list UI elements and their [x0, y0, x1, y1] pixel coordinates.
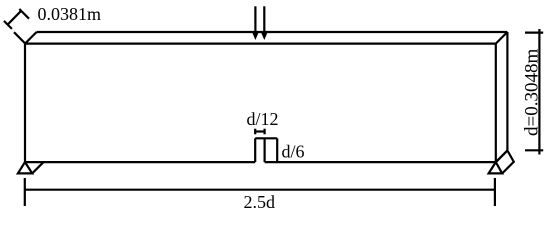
- height dimension bottom tick: [525, 149, 543, 151]
- svg-text:d=0.3048m: d=0.3048m: [522, 49, 543, 136]
- depth dimension line: [7, 11, 20, 24]
- right support depth side face: [496, 151, 514, 174]
- beam back right edge: [506, 32, 508, 151]
- load arrow 2 head: [261, 32, 268, 40]
- notch left wall: [254, 138, 256, 162]
- notch width dimension right tick: [264, 129, 266, 135]
- beam front right edge: [495, 44, 497, 163]
- beam back top edge: [37, 31, 508, 33]
- load arrow 1 shaft: [254, 6, 256, 34]
- span dimension left tick: [24, 178, 26, 206]
- notch width dimension left tick: [254, 129, 256, 135]
- svg-text:d/12: d/12: [247, 109, 279, 129]
- left support triangle: [18, 162, 32, 173]
- notch top line and d/6 bracket horizontal: [255, 137, 277, 139]
- depth dimension witness line from corner: [14, 32, 25, 43]
- svg-text:2.5d: 2.5d: [244, 192, 276, 212]
- d/6 bracket vertical: [276, 138, 278, 162]
- left support depth edge: [32, 162, 44, 174]
- height dimension line d: [538, 29, 540, 155]
- height dimension top tick: [525, 31, 543, 33]
- svg-text:d/6: d/6: [282, 142, 305, 162]
- svg-text:0.0381m: 0.0381m: [38, 4, 102, 24]
- beam front bottom edge right segment: [265, 161, 496, 163]
- depth dimension end tick lower: [4, 21, 12, 29]
- beam top-right depth chamfer: [496, 32, 508, 44]
- load arrow 2 shaft: [263, 6, 265, 34]
- beam front left edge: [24, 44, 26, 163]
- depth dimension end tick upper: [19, 9, 29, 19]
- beam front top edge: [25, 42, 496, 44]
- span dimension line 2.5d: [25, 189, 495, 191]
- right support triangle: [489, 162, 503, 173]
- notch width dimension crossbar: [255, 130, 264, 132]
- notch right wall: [264, 138, 266, 162]
- span dimension right tick: [494, 178, 496, 206]
- beam front bottom edge left segment: [25, 161, 255, 163]
- beam bottom-right depth edge: [496, 151, 508, 163]
- load arrow 1 head: [252, 32, 259, 40]
- beam top-left depth chamfer: [25, 32, 37, 44]
